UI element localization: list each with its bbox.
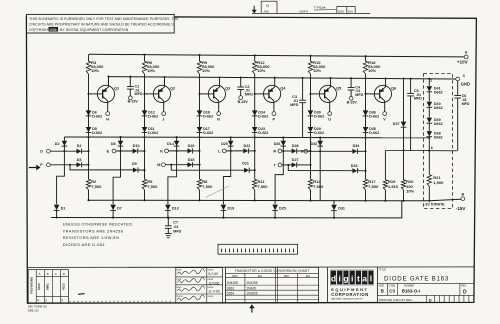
resistor R5 7,500 <box>142 179 146 190</box>
svg-text:MFD: MFD <box>135 92 143 96</box>
svg-text:7,500: 7,500 <box>313 184 324 189</box>
output terminal J <box>162 112 166 116</box>
svg-text:D-662: D-662 <box>148 114 158 118</box>
svg-text:6013: 6013 <box>37 283 41 290</box>
diode D2 clamp <box>63 137 65 151</box>
output terminal H <box>106 112 110 116</box>
svg-text:10%: 10% <box>313 68 321 73</box>
dashed box -3V STRATE <box>424 74 453 209</box>
resistor R14 7,500 <box>308 179 312 190</box>
svg-text:7,500: 7,500 <box>258 184 269 189</box>
bottom margin black up arrow <box>251 308 253 313</box>
svg-text:104: 104 <box>348 9 353 13</box>
svg-text:-15V: -15V <box>456 206 467 211</box>
ground collector rail to terminal C <box>109 77 456 79</box>
transistor Q5 2N4258 <box>319 85 336 102</box>
svg-text:D3: D3 <box>77 158 82 162</box>
svg-text:REVISIONS: REVISIONS <box>30 277 34 294</box>
svg-text:CS: CS <box>389 288 395 293</box>
svg-text:7,500: 7,500 <box>147 184 158 189</box>
svg-text:3000: 3000 <box>338 9 345 13</box>
stage 5 column wire <box>310 56 312 61</box>
svg-text:D662: D662 <box>434 90 443 94</box>
svg-text:GND: GND <box>461 82 470 87</box>
diode D32 clamp <box>319 138 321 152</box>
vertical divider before logo <box>327 267 329 303</box>
svg-text:2N4258: 2N4258 <box>227 281 238 285</box>
svg-text:1N3605: 1N3605 <box>246 291 257 295</box>
svg-text:UNLESS OTHERWISE INDICATED:: UNLESS OTHERWISE INDICATED: <box>63 221 134 226</box>
svg-text:10%: 10% <box>257 68 265 73</box>
left margin black right arrow <box>29 167 37 169</box>
svg-text:S: S <box>301 150 304 154</box>
svg-text:t: t <box>357 274 360 284</box>
svg-text:10%: 10% <box>91 68 99 73</box>
svg-text:D27: D27 <box>292 158 299 162</box>
-3V clamp rail <box>64 136 429 139</box>
pencil scribble <box>206 186 230 198</box>
svg-text:Q1: Q1 <box>114 87 119 91</box>
svg-text:B: B <box>462 192 465 196</box>
svg-text:i: i <box>339 274 341 284</box>
svg-text:B-15V: B-15V <box>347 100 358 104</box>
diode D5 D-662 <box>86 127 92 132</box>
svg-text:TRANSISTORS ARE 2N4258: TRANSISTORS ARE 2N4258 <box>63 228 123 233</box>
wire input E line <box>116 150 133 152</box>
svg-text:D664: D664 <box>227 291 235 295</box>
svg-text:MFD: MFD <box>290 103 298 107</box>
wire expander line M to D21 gate 4 <box>171 165 244 171</box>
wire input D line <box>50 150 76 152</box>
resistor R11 7,500 <box>253 179 257 190</box>
svg-text:B-15V: B-15V <box>128 100 139 104</box>
wire input R line <box>282 150 292 152</box>
terminal C GND <box>456 77 460 81</box>
diode D11 D-662 <box>142 127 148 132</box>
svg-text:DATE: DATE <box>208 269 214 272</box>
svg-text:Q2: Q2 <box>170 87 175 91</box>
svg-text:8861: 8861 <box>45 283 49 290</box>
svg-text:D14: D14 <box>167 142 175 146</box>
bottom return rail <box>51 201 402 218</box>
svg-text:COPYRIGHT: COPYRIGHT <box>29 28 51 32</box>
svg-text:9-2-66: 9-2-66 <box>208 272 218 276</box>
svg-text:EIA: EIA <box>306 274 310 278</box>
resistor R20 100 10% <box>403 150 405 179</box>
stage 4 column wire <box>254 55 256 61</box>
output terminal N <box>217 112 221 116</box>
svg-text:V: V <box>383 117 386 121</box>
edge connector strip <box>218 244 298 254</box>
svg-text:MFD: MFD <box>355 93 363 97</box>
digital logo <box>330 270 374 285</box>
svg-text:R: R <box>273 149 276 153</box>
diode D37 <box>401 122 407 127</box>
svg-text:10%: 10% <box>202 68 210 73</box>
svg-text:10%: 10% <box>147 68 155 73</box>
svg-text:D1: D1 <box>61 206 66 210</box>
diode D36 D-662 <box>363 110 369 115</box>
svg-text:D-662: D-662 <box>203 114 213 118</box>
svg-text:D2: D2 <box>55 142 60 146</box>
svg-text:D28: D28 <box>292 144 299 148</box>
svg-text:1,510: 1,510 <box>388 184 399 189</box>
diode D14 clamp <box>176 137 178 151</box>
sheet border frame <box>26 16 476 303</box>
capacitor C3 .01 MFD <box>302 78 304 100</box>
resistor R17 7,500 <box>363 179 367 190</box>
svg-text:4313: 4313 <box>62 283 66 290</box>
output terminal V <box>383 112 387 116</box>
wire clamp drop to D1 <box>57 151 65 204</box>
capacitor C1 .01 MFD <box>129 77 131 87</box>
svg-text:g: g <box>343 274 348 284</box>
transistor and diode conversion chart <box>225 267 318 303</box>
resistor R3 68,000 10% <box>86 61 90 74</box>
svg-text:DATE: DATE <box>208 286 214 289</box>
output terminal U <box>328 112 332 116</box>
svg-text:D15: D15 <box>188 158 195 162</box>
wire input K line <box>168 150 187 152</box>
svg-text:D-662: D-662 <box>369 114 379 118</box>
svg-text:D-662: D-662 <box>258 131 268 135</box>
svg-text:D19: D19 <box>227 206 234 210</box>
title block <box>377 267 379 303</box>
svg-text:a: a <box>362 274 367 284</box>
svg-text:DRN.: DRN. <box>177 270 183 272</box>
svg-text:10%: 10% <box>406 189 414 194</box>
transistor Q3 2N4258 <box>208 85 225 102</box>
stage 1 column wire <box>88 54 90 61</box>
transistor Q6 2N4258 <box>374 85 391 102</box>
capacitor C7 .01 MFD with ground <box>167 217 169 219</box>
svg-text:N: N <box>217 117 220 121</box>
svg-text:D22: D22 <box>244 144 251 148</box>
svg-text:U: U <box>328 117 331 121</box>
diode D1 D-664 <box>54 205 60 211</box>
notice box with copyright text <box>27 14 175 33</box>
diode D18 D-662 <box>197 110 203 115</box>
transistor Q1 2N4258 <box>97 85 114 102</box>
svg-text:EIA: EIA <box>258 274 262 278</box>
terminal B -15V <box>461 197 465 201</box>
capacitor C2 .01 MFD <box>240 78 242 88</box>
scale ruler ticks in blank cell <box>69 301 71 303</box>
svg-text:Q4: Q4 <box>280 87 286 91</box>
svg-text:7,500: 7,500 <box>91 184 102 189</box>
svg-text:D21: D21 <box>242 162 249 166</box>
wire input L line <box>226 150 243 152</box>
svg-text:MFD: MFD <box>245 93 253 97</box>
svg-text:BY DIGITAL EQUIPMENT CORPORATI: BY DIGITAL EQUIPMENT CORPORATION <box>60 28 129 32</box>
svg-text:D16: D16 <box>188 144 195 148</box>
transistor Q2 2N4258 <box>153 85 170 102</box>
svg-text:DATE: DATE <box>208 278 214 281</box>
svg-text:11-3-66: 11-3-66 <box>208 289 220 293</box>
bottom band top line <box>27 266 474 269</box>
svg-text:D662: D662 <box>434 135 443 139</box>
svg-text:REV.: REV. <box>461 285 467 287</box>
svg-text:11/7/66: 11/7/66 <box>208 282 219 286</box>
svg-text:D32: D32 <box>311 142 318 146</box>
svg-text:D: D <box>463 289 467 295</box>
svg-text:ENG.: ENG. <box>177 287 183 289</box>
svg-text:THIS SCHEMATIC IS FURNISHED ON: THIS SCHEMATIC IS FURNISHED ONLY FOR TES… <box>29 17 179 21</box>
svg-text:6: 6 <box>431 146 433 150</box>
svg-text:TITLE: TITLE <box>379 269 386 272</box>
diode D7 D-664 <box>110 205 116 211</box>
svg-text:DEC: DEC <box>232 274 238 278</box>
svg-text:7,500: 7,500 <box>202 184 213 189</box>
pencil mark <box>78 293 85 296</box>
resistor R15 68,000 10% <box>308 61 312 74</box>
svg-text:D8: D8 <box>111 142 116 146</box>
svg-text:D34: D34 <box>353 144 361 148</box>
svg-text:MFD: MFD <box>173 229 181 233</box>
diode D19 D-664 <box>221 205 227 211</box>
wire expander line F to D9 gate 2 <box>70 165 133 170</box>
diode D35 D-662 <box>363 127 369 132</box>
svg-text:SIZE: SIZE <box>379 285 385 287</box>
svg-text:D: D <box>40 150 43 154</box>
diode D6 D-662 <box>86 110 92 115</box>
svg-text:D26: D26 <box>274 142 281 146</box>
svg-text:Q5: Q5 <box>336 87 341 91</box>
top margin revision strip (cut off) <box>252 12 370 14</box>
revisions table <box>28 270 68 303</box>
diode D24 D-662 <box>252 110 258 115</box>
output terminal P <box>272 112 276 116</box>
resistor R8 7,500 <box>197 179 201 190</box>
svg-text:B: B <box>47 272 49 276</box>
svg-text:D: D <box>429 298 432 303</box>
svg-text:CORPORATION: CORPORATION <box>331 292 369 297</box>
svg-text:D9: D9 <box>132 162 137 166</box>
svg-text:MFD: MFD <box>462 102 470 106</box>
capacitor C6 .01 MFD <box>457 81 459 96</box>
svg-text:2N4258: 2N4258 <box>246 281 257 285</box>
wire expander line T to D33 gate 6 <box>288 165 352 171</box>
resistor R19 1,510 <box>384 150 386 179</box>
svg-text:D-662: D-662 <box>314 131 324 135</box>
svg-text:+10V: +10V <box>457 59 469 64</box>
svg-text:DIODES ARE D-664: DIODES ARE D-664 <box>63 242 106 247</box>
svg-text:l: l <box>370 274 372 284</box>
svg-text:10%: 10% <box>368 68 376 73</box>
svg-text:D20: D20 <box>221 142 228 146</box>
svg-text:C7: C7 <box>173 221 178 225</box>
svg-text:NUMBER: NUMBER <box>404 285 414 287</box>
svg-text:2: 2 <box>430 79 432 83</box>
diode D20 clamp <box>230 137 232 151</box>
svg-text:D10: D10 <box>133 144 140 148</box>
wire clamp drop to D25 <box>275 151 283 204</box>
svg-text:DRB 102: DRB 102 <box>28 309 39 313</box>
svg-text:D31: D31 <box>338 207 345 211</box>
diode D26 clamp <box>282 138 284 152</box>
diode D17 D-662 <box>197 127 203 132</box>
svg-text:.01: .01 <box>173 225 178 229</box>
svg-text:Q6: Q6 <box>391 87 396 91</box>
svg-text:Q3: Q3 <box>225 87 230 91</box>
svg-text:D-662: D-662 <box>92 114 102 118</box>
svg-text:H: H <box>106 117 109 121</box>
svg-text:CIRCUITS ARE PROPRIETARY IN NA: CIRCUITS ARE PROPRIETARY IN NATURE AND S… <box>29 22 174 26</box>
svg-text:D25: D25 <box>279 206 286 210</box>
svg-text:D-662: D-662 <box>369 131 379 135</box>
wire input M line <box>165 164 187 166</box>
terminal A +10V <box>464 55 468 59</box>
+10V top supply rail <box>89 54 464 57</box>
diode D30 D-662 <box>308 110 314 115</box>
svg-text:E: E <box>107 149 110 153</box>
svg-text:D662: D662 <box>434 122 443 126</box>
diode D31 D-664 <box>333 201 335 205</box>
svg-text:PROD.: PROD. <box>177 296 184 298</box>
svg-text:M: M <box>157 163 160 167</box>
wire pin6 link line <box>385 149 457 151</box>
svg-text:X26479: X26479 <box>299 9 309 13</box>
svg-text:4: 4 <box>61 298 63 302</box>
svg-text:D-662: D-662 <box>92 131 102 135</box>
resistor R9 68,000 10% <box>197 61 201 74</box>
stage 3 column wire <box>199 55 201 61</box>
wire S clamp drop to -15V line <box>319 151 321 200</box>
wire clamp drop to D7 <box>113 151 120 204</box>
svg-text:K: K <box>160 149 163 153</box>
diode D23 D-662 <box>252 127 258 132</box>
wire D37 column <box>403 79 405 122</box>
stage 2 column wire <box>144 55 146 62</box>
wire clamp drop to D19 <box>223 151 230 204</box>
svg-text:G: G <box>266 3 269 8</box>
svg-text:4: 4 <box>37 298 39 302</box>
svg-text:D33: D33 <box>351 164 358 168</box>
diode string D41 D40 D39 D38 <box>428 79 430 86</box>
wire input T line <box>282 164 292 166</box>
svg-text:CODE: CODE <box>389 285 396 287</box>
svg-text:PRINTED CIRCUIT REV.: PRINTED CIRCUIT REV. <box>379 298 413 302</box>
svg-text:D662: D662 <box>227 286 235 290</box>
svg-text:i: i <box>351 274 353 284</box>
capacitor C5 .01 MFD <box>410 79 412 94</box>
svg-text:TRANSISTOR & DIODE CONVERSION: TRANSISTOR & DIODE CONVERSION CHART <box>235 269 310 273</box>
svg-text:D37: D37 <box>393 122 400 126</box>
resistor R2 7,500 <box>86 179 90 190</box>
transistor Q4 2N4258 <box>264 85 281 102</box>
diode D25 D-664 <box>272 205 278 211</box>
svg-text:A36: A36 <box>264 10 270 14</box>
svg-text:D662: D662 <box>434 106 443 110</box>
svg-text:MAYNARD, MASSACHUSETTS: MAYNARD, MASSACHUSETTS <box>331 298 363 301</box>
svg-text:A: A <box>465 51 468 55</box>
top margin black down arrow <box>253 6 255 10</box>
stage 6 column wire <box>365 56 367 61</box>
svg-text:7,500: 7,500 <box>368 184 379 189</box>
signature box <box>176 268 223 303</box>
resistor R6 68,000 10% <box>142 61 146 74</box>
resistor R21 1,500 <box>427 175 431 186</box>
wire input F line <box>50 164 76 166</box>
resistor R12 68,000 10% <box>253 61 257 74</box>
diode D29 D-662 <box>308 127 314 132</box>
capacitor C4 .01 MFD <box>350 78 352 87</box>
svg-text:D-662: D-662 <box>203 131 213 135</box>
svg-text:d: d <box>331 274 336 284</box>
svg-text:J: J <box>162 117 164 121</box>
wire input S line <box>308 150 353 152</box>
svg-text:D7: D7 <box>117 206 122 210</box>
svg-text:DEC FORM NO: DEC FORM NO <box>28 305 47 309</box>
svg-text:B-15V: B-15V <box>238 100 249 104</box>
svg-text:B163-O-I: B163-O-I <box>402 289 420 294</box>
svg-text:2: 2 <box>45 298 47 302</box>
resistor R18 68,000 10% <box>363 61 367 74</box>
svg-text:D-662: D-662 <box>314 114 324 118</box>
-15V line to terminal B <box>89 199 461 201</box>
wire clamp drop to D13 <box>168 151 177 204</box>
svg-text:DIODE GATE B163: DIODE GATE B163 <box>384 275 449 282</box>
svg-text:1,500: 1,500 <box>433 180 444 185</box>
svg-text:D13: D13 <box>172 206 179 210</box>
svg-text:D-662: D-662 <box>148 131 158 135</box>
diode D8 clamp <box>120 137 122 151</box>
diode D12 D-662 <box>142 110 148 115</box>
svg-text:1966: 1966 <box>49 28 57 32</box>
svg-text:RESISTORS ARE 1/4W,5%: RESISTORS ARE 1/4W,5% <box>63 235 120 240</box>
svg-text:DATE: DATE <box>208 295 214 298</box>
svg-text:ΓˈVˈ6,)+6: ΓˈVˈ6,)+6 <box>315 6 327 10</box>
svg-text:D-662: D-662 <box>258 114 268 118</box>
svg-text:1N645: 1N645 <box>246 286 256 290</box>
svg-text:-3V STRATE: -3V STRATE <box>424 202 445 206</box>
diode D13 D-664 <box>165 205 171 211</box>
svg-text:MFD: MFD <box>414 97 422 101</box>
svg-text:A: A <box>39 272 41 276</box>
svg-text:C: C <box>463 74 466 78</box>
svg-text:DEC: DEC <box>284 274 290 278</box>
